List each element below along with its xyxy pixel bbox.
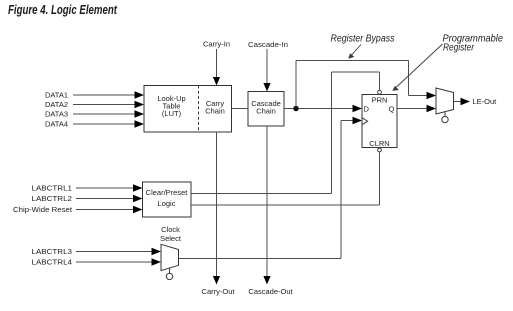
arrowhead DATA1 <box>135 91 145 98</box>
svg-text:Figure 4. Logic Element: Figure 4. Logic Element <box>8 2 117 17</box>
svg-text:DATA3: DATA3 <box>45 110 68 119</box>
PRN bubble <box>378 90 382 94</box>
svg-text:Cascade-In: Cascade-In <box>248 40 288 49</box>
wire register bypass top rail <box>296 60 409 62</box>
CLRN bubble <box>378 148 382 152</box>
svg-text:Chain: Chain <box>256 107 276 116</box>
wire DATA2 input <box>73 104 135 106</box>
svg-text:Select: Select <box>160 234 182 243</box>
wire LABCTRL4 input <box>76 261 152 263</box>
svg-text:Register: Register <box>443 42 474 54</box>
arrowhead Cascade-In <box>263 83 270 92</box>
svg-text:CLRN: CLRN <box>369 139 389 148</box>
arrowhead LABCTRL2 <box>133 195 143 202</box>
wire LE-Out <box>454 101 462 103</box>
arrowhead DATA2 <box>135 101 145 108</box>
pointer arrow to bypass wire <box>348 45 361 59</box>
svg-text:Register Bypass: Register Bypass <box>331 33 396 45</box>
svg-text:PRN: PRN <box>372 96 388 105</box>
arrowhead DATA3 <box>135 110 145 117</box>
svg-text:(LUT): (LUT) <box>162 109 182 118</box>
wire LABCTRL3 input <box>76 251 152 253</box>
svg-text:LE-Out: LE-Out <box>473 97 498 106</box>
wire preset path horizontal <box>191 193 332 195</box>
svg-text:Carry-Out: Carry-Out <box>202 287 236 296</box>
wire Carry-Out vertical <box>216 132 218 277</box>
arrowhead LABCTRL4 <box>152 258 162 265</box>
svg-text:Logic: Logic <box>158 199 176 208</box>
wire LABCTRL2 input <box>76 198 134 200</box>
wire clock path vertical <box>340 121 342 259</box>
wire preset rail to PRN <box>332 71 380 73</box>
svg-text:LABCTRL2: LABCTRL2 <box>32 194 73 203</box>
svg-text:LABCTRL4: LABCTRL4 <box>32 258 73 267</box>
wire clock path horizontal <box>179 258 342 260</box>
block U1 Look-Up Table / Carry Chain <box>144 86 232 133</box>
svg-text:LABCTRL3: LABCTRL3 <box>32 247 73 256</box>
arrowhead Carry-In <box>213 77 220 86</box>
arrowhead DATA4 <box>135 120 145 127</box>
mux U4 output select <box>436 88 454 123</box>
wire Chip-Wide Reset input <box>76 209 134 211</box>
arrowhead Q into mux <box>427 105 437 112</box>
svg-text:Clock: Clock <box>161 225 180 234</box>
svg-text:Cascade-Out: Cascade-Out <box>248 287 293 296</box>
svg-text:LABCTRL1: LABCTRL1 <box>32 184 73 193</box>
wire register bypass down to mux <box>408 61 410 96</box>
wire down to PRN bubble <box>379 72 381 90</box>
wire Cascade-In <box>266 49 268 83</box>
wire Q to mux <box>397 108 428 110</box>
wire carry to cascade <box>232 108 249 110</box>
arrowhead into D <box>353 105 363 112</box>
svg-text:DATA1: DATA1 <box>45 91 68 100</box>
svg-text:Clear/Preset: Clear/Preset <box>146 188 189 197</box>
wire clear path vertical to CLRN bubble <box>379 152 381 205</box>
svg-text:Carry-In: Carry-In <box>203 40 230 49</box>
block U5 Clear/Preset Logic <box>143 182 192 217</box>
block U2 Cascade Chain <box>248 92 284 127</box>
register U3 programmable register <box>362 90 397 152</box>
mux U6 clock select <box>161 244 179 279</box>
wire DATA4 input <box>73 123 135 125</box>
wire DATA3 input <box>73 113 135 115</box>
arrowhead LABCTRL1 <box>133 184 143 191</box>
wire bypass to mux input <box>409 95 429 97</box>
svg-text:DATA2: DATA2 <box>45 100 68 109</box>
wire register bypass vertical from dot <box>295 61 297 109</box>
svg-text:Q: Q <box>389 105 395 114</box>
svg-text:Chip-Wide Reset: Chip-Wide Reset <box>13 205 73 214</box>
arrowhead Carry-Out <box>213 276 220 285</box>
wire clear path horizontal <box>191 204 380 206</box>
wire clock to register <box>341 120 353 122</box>
wire DATA1 input <box>73 94 135 96</box>
pointer arrow to register <box>392 44 442 91</box>
arrowhead clock into register <box>353 117 363 124</box>
node junction dot <box>293 106 298 111</box>
wire cascade out to register D <box>284 108 353 110</box>
wire LABCTRL1 input <box>76 187 134 189</box>
wire Carry-In <box>216 49 218 77</box>
svg-text:DATA4: DATA4 <box>45 120 68 129</box>
arrowhead bypass into mux <box>427 92 437 99</box>
arrowhead Chip-Wide Reset <box>133 206 143 213</box>
arrowhead Cascade-Out <box>263 276 270 285</box>
arrowhead LABCTRL3 <box>152 248 162 255</box>
clock triangle pin <box>362 118 368 125</box>
wire Cascade-Out vertical <box>266 126 268 277</box>
wire preset path vertical <box>331 72 333 194</box>
arrowhead LE-Out <box>461 98 471 105</box>
svg-text:Chain: Chain <box>205 107 225 116</box>
svg-text:D: D <box>364 105 370 114</box>
